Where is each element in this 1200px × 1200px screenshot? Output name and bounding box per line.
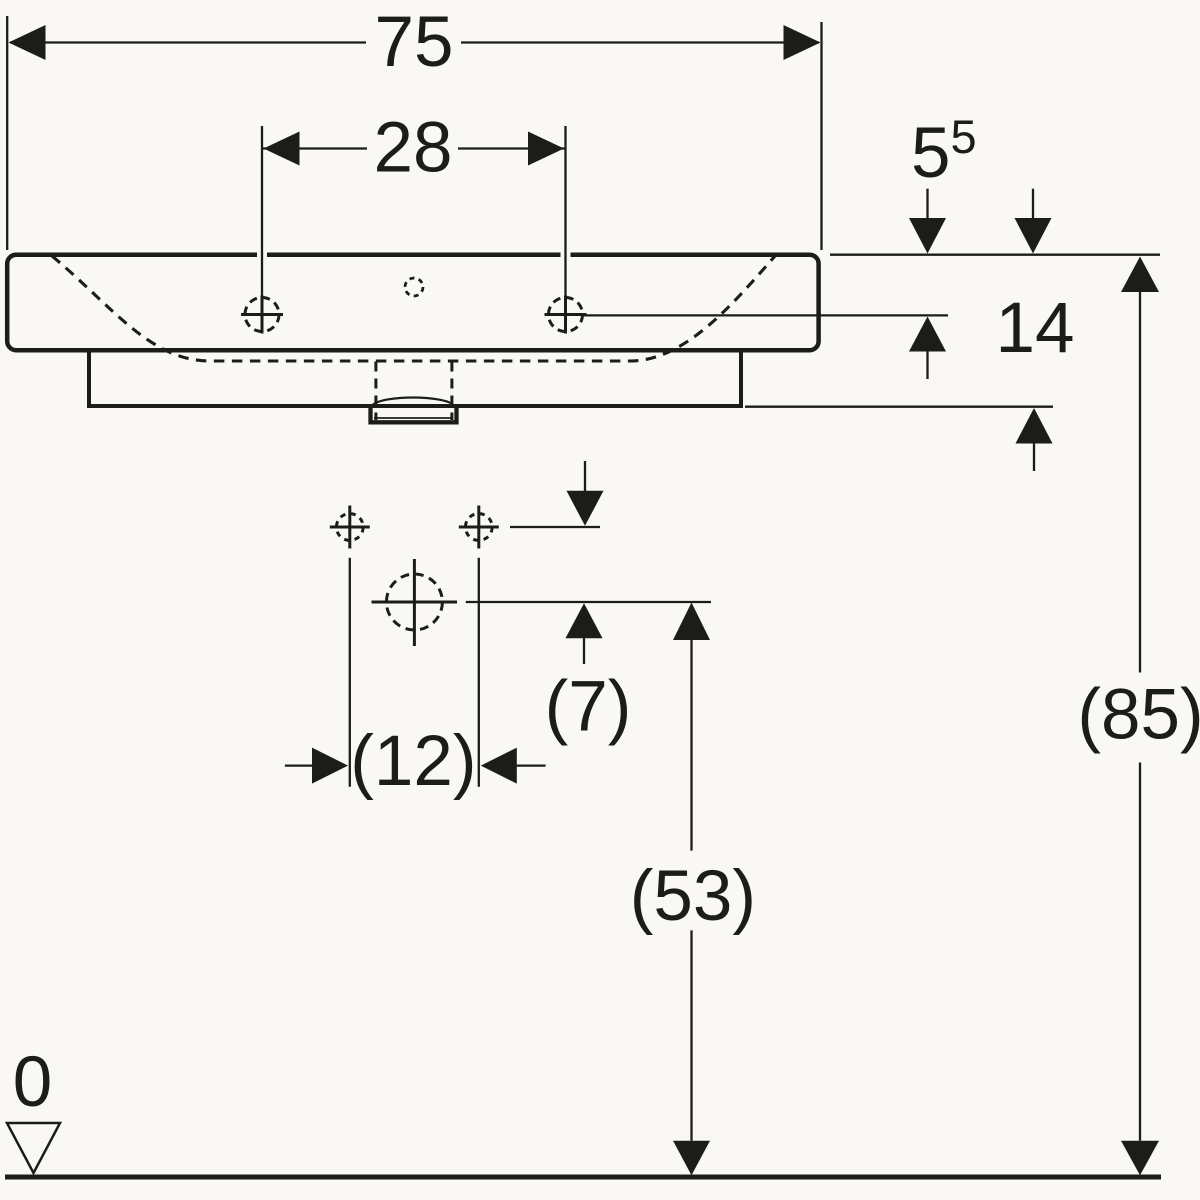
dimension 28 line: [262, 147, 367, 149]
mounting hole extension line left: [349, 558, 351, 787]
drain hidden sides dashed: [374, 362, 377, 421]
svg-text:75: 75: [375, 3, 454, 82]
svg-text:(12): (12): [350, 722, 476, 801]
dimension 7 down arrow: [584, 461, 586, 492]
datum triangle: [7, 1123, 60, 1173]
svg-text:28: 28: [374, 109, 453, 188]
siphon hole cross: [372, 559, 458, 646]
dimension 85 down arrow: [1121, 1141, 1159, 1176]
mounting axis extension line: [510, 526, 600, 528]
drain dome: [373, 398, 453, 405]
dimension 53 line: [690, 640, 692, 851]
gap in basin top line at right tap extension: [561, 250, 571, 260]
faucet hole right cross: [545, 296, 587, 334]
dimension 75 extension line left: [6, 16, 8, 250]
floor line: [5, 1175, 1161, 1180]
dimension 12 left arrow: [285, 764, 313, 766]
faucet hole left cross: [241, 296, 283, 334]
dimension 28 arrow right: [528, 132, 564, 166]
dimension 75 arrow left: [9, 25, 46, 60]
siphon axis extension line: [466, 601, 711, 603]
overflow hole dashed circle: [405, 278, 423, 296]
gap in basin top line at left tap extension: [257, 250, 267, 260]
dimension 28 extension line right: [564, 126, 566, 296]
svg-text:(85): (85): [1077, 675, 1200, 754]
mounting hole right cross: [459, 506, 499, 549]
dimension 7 up arrow: [566, 603, 603, 638]
svg-text:(7): (7): [545, 668, 632, 747]
pedestal bottom extension line right: [745, 406, 1053, 408]
dimension 85 line: [1139, 292, 1141, 673]
dimension 75 arrow right: [784, 25, 821, 60]
basin interior dashed profile: [52, 256, 775, 361]
svg-text:14: 14: [996, 289, 1075, 368]
svg-text:(53): (53): [630, 857, 756, 936]
dimension 75 extension line right: [820, 22, 822, 250]
dimension 53 up arrow: [673, 603, 710, 641]
svg-text:0: 0: [13, 1043, 53, 1122]
dimension 5.5 up arrow: [909, 317, 946, 352]
mounting hole extension line right: [478, 558, 480, 787]
dimension 75 line: [10, 41, 366, 43]
dimension 5.5 down arrow: [926, 189, 928, 220]
dimension 12 right arrow: [481, 748, 517, 784]
dimension 53 down arrow: [673, 1141, 710, 1176]
tap axis extension line right: [584, 314, 948, 316]
basin top level extension line right: [830, 254, 1160, 256]
dimension 28 arrow left: [264, 132, 300, 166]
dimension 28 extension line left: [261, 126, 263, 296]
dimension 85 up arrow: [1121, 257, 1159, 293]
drain box: [371, 406, 457, 422]
dimension 14 down arrow: [1032, 189, 1034, 220]
washbasin pedestal: [89, 353, 741, 407]
mounting hole left cross: [330, 506, 370, 549]
washbasin body upper: [7, 255, 818, 351]
drain inner line: [374, 417, 453, 419]
dimension 14 up arrow: [1016, 408, 1053, 444]
